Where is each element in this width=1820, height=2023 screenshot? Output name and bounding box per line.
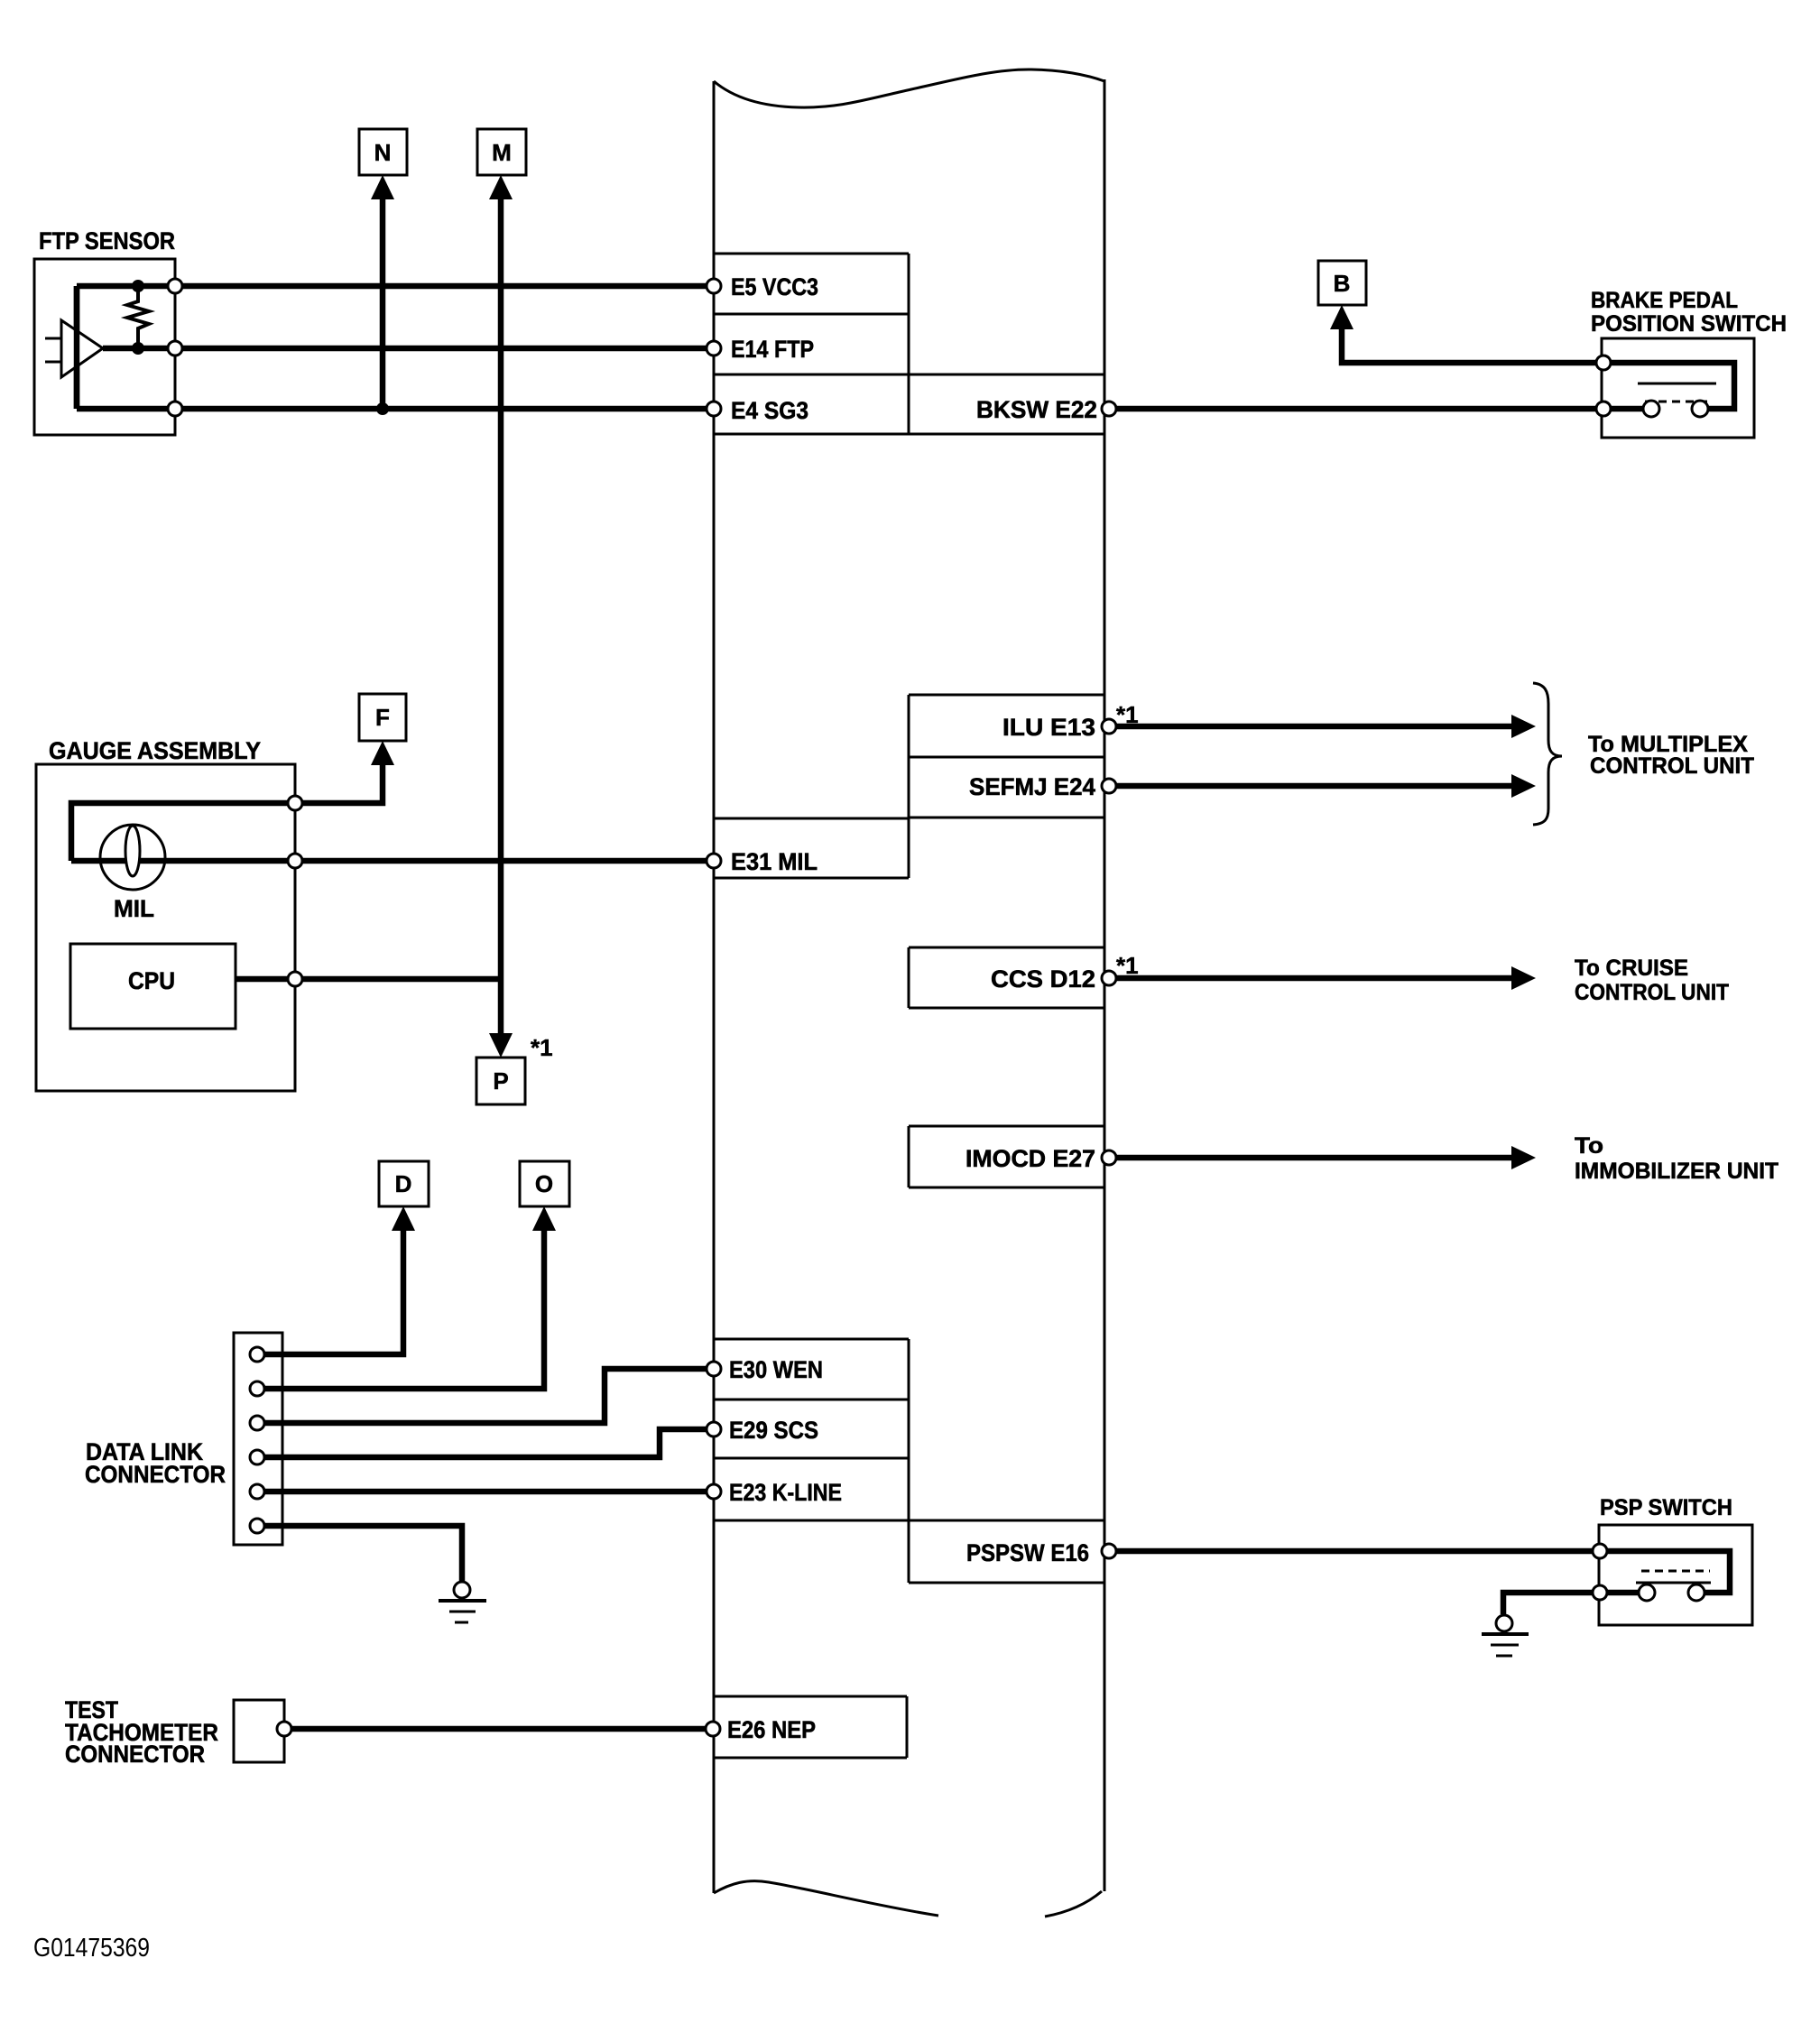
svg-text:*1: *1 — [1116, 952, 1139, 979]
svg-text:CCS D12: CCS D12 — [991, 965, 1095, 993]
svg-text:IMMOBILIZER UNIT: IMMOBILIZER UNIT — [1575, 1159, 1778, 1184]
svg-text:FTP SENSOR: FTP SENSOR — [39, 227, 175, 254]
svg-text:E4 SG3: E4 SG3 — [731, 397, 808, 424]
svg-text:E26 NEP: E26 NEP — [727, 1716, 816, 1743]
svg-text:PSP SWITCH: PSP SWITCH — [1600, 1495, 1732, 1520]
svg-text:*1: *1 — [531, 1034, 553, 1061]
svg-text:CONNECTOR: CONNECTOR — [65, 1741, 205, 1768]
svg-text:PSPSW E16: PSPSW E16 — [966, 1539, 1089, 1566]
svg-text:CPU: CPU — [128, 967, 175, 994]
svg-text:O: O — [535, 1170, 553, 1197]
svg-text:D: D — [395, 1170, 412, 1197]
svg-text:M: M — [492, 139, 512, 166]
svg-text:SEFMJ E24: SEFMJ E24 — [969, 773, 1095, 800]
svg-text:BRAKE PEDAL: BRAKE PEDAL — [1591, 288, 1738, 313]
svg-text:CONTROL UNIT: CONTROL UNIT — [1590, 753, 1754, 779]
svg-text:To: To — [1575, 1133, 1603, 1159]
svg-text:GAUGE ASSEMBLY: GAUGE ASSEMBLY — [49, 737, 261, 764]
svg-text:ILU E13: ILU E13 — [1002, 714, 1095, 741]
svg-text:E29 SCS: E29 SCS — [729, 1417, 818, 1444]
svg-text:E23 K-LINE: E23 K-LINE — [729, 1479, 842, 1506]
svg-text:F: F — [375, 704, 390, 731]
svg-text:CONTROL UNIT: CONTROL UNIT — [1575, 980, 1729, 1005]
svg-text:IMOCD E27: IMOCD E27 — [965, 1145, 1095, 1172]
svg-text:P: P — [493, 1067, 508, 1095]
svg-text:E5 VCC3: E5 VCC3 — [731, 273, 818, 300]
svg-text:POSITION SWITCH: POSITION SWITCH — [1591, 311, 1787, 337]
svg-text:*1: *1 — [1116, 701, 1139, 728]
svg-text:E31 MIL: E31 MIL — [731, 848, 818, 875]
svg-text:CONNECTOR: CONNECTOR — [85, 1461, 226, 1488]
svg-text:MIL: MIL — [114, 895, 154, 922]
svg-text:G01475369: G01475369 — [33, 1934, 150, 1963]
svg-text:BKSW E22: BKSW E22 — [976, 396, 1097, 423]
svg-text:To CRUISE: To CRUISE — [1575, 956, 1688, 981]
svg-text:N: N — [374, 139, 392, 166]
svg-text:E14 FTP: E14 FTP — [731, 336, 814, 363]
svg-text:E30 WEN: E30 WEN — [729, 1356, 823, 1383]
svg-text:B: B — [1334, 270, 1351, 297]
